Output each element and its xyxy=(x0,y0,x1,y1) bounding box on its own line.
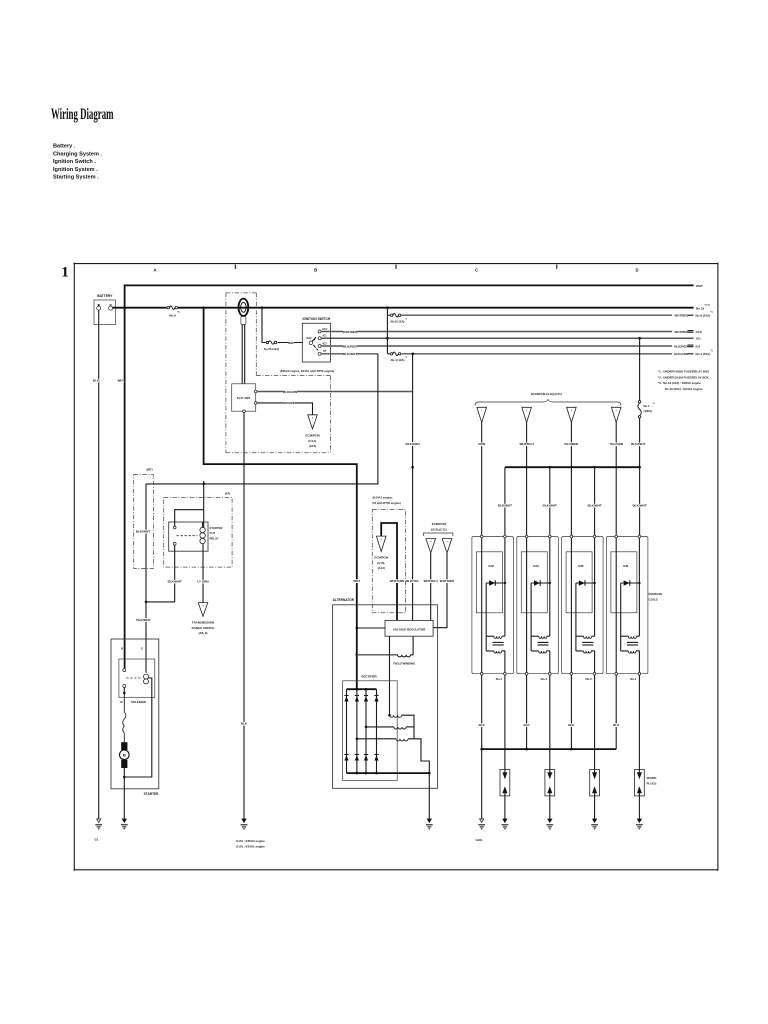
wire battery WHT to starter B xyxy=(118,308,125,669)
wire alternator ground xyxy=(428,773,430,819)
wire BLK/RED IG2 line xyxy=(321,344,701,348)
coil No.1 top contacts xyxy=(615,535,641,538)
ground G1 xyxy=(94,819,102,842)
svg-text:WHT: WHT xyxy=(696,284,703,288)
ICM box No.4 xyxy=(476,552,502,613)
wire BLK/WHT label top right xyxy=(631,442,645,446)
wire spark plug No.2 ground xyxy=(594,796,596,819)
MT dash-dot box xyxy=(134,467,154,568)
junction IG1/No.19 drop xyxy=(638,337,641,340)
coil ground bus xyxy=(480,748,616,751)
wire WHT/BLU to regulator xyxy=(424,553,439,620)
solenoid box xyxy=(119,659,155,704)
wire BLK coil No.4 ground xyxy=(479,675,486,749)
wire battery negative BLK to ground xyxy=(93,310,100,819)
battery terminal + xyxy=(97,304,101,310)
junction B+ regulator tap xyxy=(356,627,386,630)
relay contact bottom xyxy=(173,542,176,545)
ignition switch BAT contact xyxy=(309,338,315,345)
connector triangle WHT/BLU xyxy=(426,539,436,554)
BLK/WHT coil bus xyxy=(505,466,641,469)
connector triangle ECM/PCM (WHT/GRN) xyxy=(374,536,388,570)
wire GRN/RED from ELD to ECM xyxy=(257,401,313,415)
wire WHT/GRN regulator to ECM xyxy=(381,523,405,620)
svg-text:Ignition Switch .: Ignition Switch . xyxy=(53,159,96,165)
wire alternator B+ run xyxy=(204,308,361,690)
relay coil xyxy=(200,522,205,544)
wire fuse No.26 branch xyxy=(262,308,302,345)
wire BLK/WHT drop coil No.3 xyxy=(543,467,557,536)
svg-text:ECM/PCM: ECM/PCM xyxy=(432,522,447,526)
wire YEL/GRN to coil No.1 xyxy=(609,423,624,537)
wire motor return loop xyxy=(123,678,152,778)
wire BLK coil No.2 ground xyxy=(568,675,575,749)
svg-text:IG1: IG1 xyxy=(323,335,328,338)
svg-text:No.1: No.1 xyxy=(644,404,651,408)
svg-text:BLK/GRN: BLK/GRN xyxy=(406,442,421,446)
wire coil No.1 to spark plug xyxy=(638,675,640,770)
wire WHT/BLU to coil No.3 xyxy=(519,423,534,537)
svg-text:No.9: No.9 xyxy=(169,314,176,318)
svg-text:BLK: BLK xyxy=(93,379,100,383)
svg-text:BATTERY: BATTERY xyxy=(97,294,113,298)
svg-text:COILS: COILS xyxy=(649,597,658,601)
rectifier junctions xyxy=(356,688,378,774)
svg-text:STARTER: STARTER xyxy=(144,792,160,796)
svg-text:(A14): (A14) xyxy=(309,444,317,448)
wire BLK/WHT ST line xyxy=(321,352,378,356)
ICM diode No.2 xyxy=(576,580,596,586)
ECM/PCM row bracket xyxy=(475,392,621,406)
ignition coil unit No.2 xyxy=(562,537,604,674)
ground spark plug No.4 xyxy=(503,819,507,822)
svg-text:BLK/WHT: BLK/WHT xyxy=(498,504,512,508)
wire BLK/WHT drop coil No.1 xyxy=(632,467,646,536)
wire spark plug No.1 ground xyxy=(638,796,640,819)
junction right fuse branch xyxy=(386,306,389,309)
svg-text:1: 1 xyxy=(61,265,69,281)
connector triangle coil 1 signal xyxy=(611,407,621,422)
ignition switch IG1 contact xyxy=(318,335,327,340)
svg-text:B: B xyxy=(121,647,123,651)
svg-text:(A10),(C11): (A10),(C11) xyxy=(431,527,447,531)
svg-text:BLK/WHT: BLK/WHT xyxy=(168,580,182,584)
svg-text:No.26 (10A): No.26 (10A) xyxy=(264,347,279,351)
wire spark plug No.3 ground xyxy=(549,796,551,819)
wire regulator to stator xyxy=(389,636,391,715)
wire solenoid to motor xyxy=(123,688,126,743)
relay contact dashes xyxy=(177,535,198,537)
spark plug No.4 xyxy=(500,770,510,796)
starter motor M xyxy=(120,750,130,760)
svg-text:BLK/WHT: BLK/WHT xyxy=(343,352,357,356)
coil No.4 windings xyxy=(486,583,505,653)
wire coil No.3 to spark plug xyxy=(549,675,551,770)
svg-text:No.19 (20A) : K24A1 engine: No.19 (20A) : K24A1 engine xyxy=(665,387,703,391)
svg-text:*2 : UNDER-DASH FUSE/RELAY BO: *2 : UNDER-DASH FUSE/RELAY BOX xyxy=(658,375,709,379)
svg-text:*1 : UNDER-HOOD FUSE/RELAY BO: *1 : UNDER-HOOD FUSE/RELAY BOX xyxy=(658,370,709,374)
junction battery feed xyxy=(123,306,126,309)
ignition coil unit No.1 xyxy=(606,537,648,674)
starter M1 box xyxy=(111,639,159,796)
svg-text:RECTIFIER: RECTIFIER xyxy=(361,675,377,679)
ground spark plug No.1 xyxy=(637,819,641,822)
svg-text:BLK/RED: BLK/RED xyxy=(674,344,688,348)
wire WHT/RED to regulator xyxy=(433,553,455,628)
ICM diode No.3 xyxy=(531,580,551,586)
connector triangle coil 2 signal xyxy=(567,407,577,422)
wire No.4 (10A) row xyxy=(387,315,713,356)
ground starter xyxy=(122,819,126,822)
svg-text:Charging System .: Charging System . xyxy=(53,151,103,157)
wire WHT/RED ACC line xyxy=(321,330,703,334)
fuse No.9 main xyxy=(167,305,181,318)
svg-text:ICM: ICM xyxy=(623,564,629,568)
wire BLK coil No.1 ground xyxy=(613,675,620,749)
svg-text:No.4 (10A): No.4 (10A) xyxy=(391,358,405,362)
ignition switch rotor dashes xyxy=(314,337,319,350)
svg-text:BLK/GRN: BLK/GRN xyxy=(674,352,688,356)
svg-text:FIELD WINDING: FIELD WINDING xyxy=(393,662,416,666)
ICM box No.3 xyxy=(521,552,547,613)
ignition switch SW1 xyxy=(302,317,331,362)
solenoid plunger dashes xyxy=(126,677,141,679)
ICM box No.1 xyxy=(611,552,637,613)
relay feed elbow xyxy=(175,510,204,526)
svg-text:GRN: GRN xyxy=(478,442,486,446)
svg-text:VOLTAGE REGULATOR: VOLTAGE REGULATOR xyxy=(393,628,426,632)
rectifier diodes upper xyxy=(344,696,378,702)
ground G101 (ELD) xyxy=(236,819,265,848)
coil No.2 top contacts xyxy=(570,535,596,538)
ELD pin 1 xyxy=(254,390,257,393)
wire coil No.2 to spark plug xyxy=(594,675,596,770)
svg-text:S: S xyxy=(141,647,143,651)
ELD dash-dot enclosure xyxy=(226,293,331,453)
svg-text:SOLENOID: SOLENOID xyxy=(131,700,146,704)
svg-text:STARTER: STARTER xyxy=(210,526,223,530)
svg-text:PLUGS: PLUGS xyxy=(647,781,657,785)
ground spark plug No.2 xyxy=(593,819,597,822)
junction IG1/fuse column xyxy=(386,337,389,340)
table of contents list xyxy=(53,144,103,181)
svg-text:Wiring Diagram: Wiring Diagram xyxy=(51,106,114,123)
label spark plugs xyxy=(647,776,658,785)
svg-text:(C14),: (C14), xyxy=(308,439,317,443)
junction starter relay branch xyxy=(202,483,205,486)
wire BLK coil No.3 ground xyxy=(523,675,530,749)
junction rectifier output xyxy=(428,772,431,775)
coil No.1 bottom contacts xyxy=(615,672,641,681)
fuse No.26 (10A) xyxy=(264,340,279,352)
voltage regulator VR xyxy=(385,620,433,636)
label ignition coils xyxy=(649,592,662,601)
coil No.1 internal wires xyxy=(616,538,639,674)
svg-text:Starting System .: Starting System . xyxy=(53,175,99,181)
AT dash-dot box xyxy=(164,491,232,567)
svg-text:BLK/RED: BLK/RED xyxy=(343,344,358,348)
rectifier box xyxy=(343,675,398,781)
svg-text:(K24A1 engine,: (K24A1 engine, xyxy=(373,496,393,500)
wire solenoid S feed BLK/WHT xyxy=(136,602,150,673)
svg-text:IG2: IG2 xyxy=(696,344,701,348)
svg-text:WHT/RED: WHT/RED xyxy=(440,579,455,583)
svg-text:WHT: WHT xyxy=(118,379,125,383)
K24A1 dash-dot box xyxy=(372,510,405,613)
svg-text:No.19: No.19 xyxy=(696,307,705,311)
svg-text:*1 *2: *1 *2 xyxy=(705,304,711,307)
rectifier bottom bus xyxy=(347,772,430,774)
svg-text:BLK: BLK xyxy=(241,722,248,726)
coil No.4 bottom contacts xyxy=(480,672,506,681)
label No.19 at right edge xyxy=(696,304,710,311)
svg-text:BLK: BLK xyxy=(479,723,486,727)
svg-text:ECM/PCM: ECM/PCM xyxy=(305,434,320,438)
ignition switch ST contact xyxy=(318,350,327,355)
svg-text:BLK: BLK xyxy=(613,723,620,727)
ELD pin 2 xyxy=(254,402,257,405)
junction starter solenoid wire xyxy=(145,601,148,604)
svg-text:GRN/RED: GRN/RED xyxy=(283,401,298,405)
ignition switch IG2 contact xyxy=(318,342,327,347)
ECM/PCM pair bracket xyxy=(424,522,453,536)
coil No.1 windings xyxy=(621,583,640,653)
wire coil No.4 to spark plug xyxy=(504,675,506,770)
svg-text:ACC: ACC xyxy=(322,328,328,331)
junction BLK/GRN drop xyxy=(412,353,415,356)
solenoid contact bottom xyxy=(123,685,126,688)
ignition switch ACC contact xyxy=(318,328,327,333)
svg-text:No.3: No.3 xyxy=(541,677,548,681)
wire GRN to coil No.4 xyxy=(478,423,486,537)
svg-text:Battery .: Battery . xyxy=(53,144,76,150)
solenoid contact top xyxy=(123,669,126,672)
svg-text:ELD UNIT: ELD UNIT xyxy=(237,396,251,400)
wire spark plug No.4 ground xyxy=(504,796,506,819)
alternator box xyxy=(333,598,438,789)
battery terminal - xyxy=(109,305,113,310)
svg-text:No.4: No.4 xyxy=(496,677,503,681)
rectifier diodes lower xyxy=(344,755,378,761)
svg-text:IG1: IG1 xyxy=(696,337,701,341)
svg-text:WHT/BLU: WHT/BLU xyxy=(519,442,534,446)
connector triangle ECM/PCM (ELD) xyxy=(305,415,320,448)
svg-text:D: D xyxy=(635,268,638,273)
svg-text:No.9 (15A): No.9 (15A) xyxy=(391,319,405,323)
wire BLK/WHT MT branch xyxy=(136,484,150,602)
ELD unit U-ELD xyxy=(232,384,256,411)
svg-text:IGNITION SWITCH: IGNITION SWITCH xyxy=(302,317,330,321)
coil No.3 bottom contacts xyxy=(525,672,551,681)
wire BLK/GRN from ELD xyxy=(257,390,413,394)
connector triangle coil 3 signal xyxy=(522,407,532,422)
svg-text:WHT/RED: WHT/RED xyxy=(674,314,689,318)
svg-text:BLK/YEL: BLK/YEL xyxy=(406,579,419,583)
svg-text:ICM: ICM xyxy=(488,564,494,568)
svg-text:G1: G1 xyxy=(94,838,98,842)
ELD pin gnd xyxy=(243,410,246,413)
svg-text:WHT/GRN: WHT/GRN xyxy=(390,579,406,583)
coil No.2 windings xyxy=(576,583,595,653)
coil No.4 internal wires xyxy=(482,538,505,674)
svg-text:C: C xyxy=(475,268,478,273)
wire BLU/RED to coil No.2 xyxy=(565,423,580,537)
wire BLK/WHT starter feed xyxy=(146,354,378,484)
svg-text:TRANSMISSION: TRANSMISSION xyxy=(192,621,214,625)
svg-text:CUT: CUT xyxy=(210,531,216,535)
svg-text:G101: G101 xyxy=(475,838,482,842)
svg-text:BLK/WHT: BLK/WHT xyxy=(543,504,557,508)
svg-text:IG2: IG2 xyxy=(323,342,328,345)
svg-text:BLK/WHT: BLK/WHT xyxy=(136,530,150,534)
coil No.2 internal wires xyxy=(571,538,594,674)
connector triangle coil 4 signal xyxy=(477,407,487,422)
coil No.4 top contacts xyxy=(480,535,506,538)
svg-text:BLK/WHT: BLK/WHT xyxy=(631,442,645,446)
svg-text:*3 : No.19 (15A) : K20A3 engi: *3 : No.19 (15A) : K20A3 engine xyxy=(658,381,701,385)
ICM diode No.1 xyxy=(621,580,641,586)
rectifier top bus xyxy=(347,688,377,690)
wire No.19 drop to coils xyxy=(639,338,641,467)
ground G101 (coils) xyxy=(475,819,485,842)
battery xyxy=(94,294,116,324)
svg-text:ECM/PCM: ECM/PCM xyxy=(374,556,388,560)
wire starter ground xyxy=(123,777,125,819)
rectifier phase wires xyxy=(347,689,377,773)
svg-text:No.2: No.2 xyxy=(585,677,592,681)
ICM box No.2 xyxy=(566,552,592,613)
connector triangle transmission range switch xyxy=(192,603,215,636)
ignition coil unit No.4 xyxy=(472,537,514,674)
svg-text:A: A xyxy=(153,268,156,273)
svg-text:BAT: BAT xyxy=(307,336,313,340)
svg-text:(AT): (AT) xyxy=(225,491,231,495)
wire main battery feed xyxy=(113,307,694,309)
svg-text:WHT/RED: WHT/RED xyxy=(343,330,358,334)
wire bus to ground G101 xyxy=(481,749,483,819)
svg-text:BLK: BLK xyxy=(524,723,531,727)
svg-text:K2 with DT52 engine): K2 with DT52 engine) xyxy=(373,501,401,505)
svg-text:SPARK: SPARK xyxy=(647,776,658,780)
motor brush top xyxy=(121,742,127,750)
fuse No.4 (10A) xyxy=(390,351,408,362)
svg-text:(K20A3 engine, K24A1 with DT52: (K20A3 engine, K24A1 with DT52 engine) xyxy=(280,369,334,373)
svg-text:ECM/PCM (A10),(C11): ECM/PCM (A10),(C11) xyxy=(531,392,562,396)
spark plug No.1 xyxy=(635,770,645,796)
wire relay coil output LT GRN xyxy=(197,544,209,603)
motor brush bottom xyxy=(121,760,127,768)
notes fuse/relay box xyxy=(658,370,709,391)
wire ELD ground BLK xyxy=(241,413,248,820)
coil No.2 bottom contacts xyxy=(570,672,596,681)
wire IG1 line xyxy=(321,337,701,341)
svg-text:No.9 (15A): No.9 (15A) xyxy=(696,314,711,318)
spark plug No.3 xyxy=(545,770,555,796)
svg-text:ICM: ICM xyxy=(533,564,539,568)
junction alternator feed xyxy=(202,306,205,309)
ELD current sensor ring xyxy=(239,299,249,325)
svg-text:Ignition System .: Ignition System . xyxy=(53,167,98,173)
svg-text:No.1: No.1 xyxy=(630,677,637,681)
svg-text:ICM: ICM xyxy=(578,564,584,568)
spark plug No.2 xyxy=(590,770,600,796)
starter cut relay RLY1 xyxy=(169,522,223,551)
field winding xyxy=(356,636,417,665)
junction ELD branch xyxy=(261,306,264,309)
relay contact top xyxy=(173,526,176,529)
svg-text:No.4 (10A): No.4 (10A) xyxy=(696,352,711,356)
stator windings xyxy=(356,714,430,773)
svg-text:(A8, 9): (A8, 9) xyxy=(199,631,208,635)
svg-text:RELAY: RELAY xyxy=(210,536,219,540)
svg-text:(100A): (100A) xyxy=(644,409,653,413)
svg-text:IGNITION: IGNITION xyxy=(649,592,662,596)
svg-text:BLK/WHT: BLK/WHT xyxy=(632,504,646,508)
wire BLK/GRN to alternator xyxy=(406,354,421,621)
svg-text:ACC: ACC xyxy=(696,330,703,334)
wire ELD sensor pair down xyxy=(242,325,245,384)
svg-text:WHT: WHT xyxy=(288,341,295,345)
solenoid coil xyxy=(144,674,149,684)
svg-text:BLK/WHT: BLK/WHT xyxy=(136,618,150,622)
svg-text:ALTERNATOR: ALTERNATOR xyxy=(333,598,355,602)
wire BLK/WHT drop coil No.4 xyxy=(498,467,512,536)
svg-text:(A14): (A14) xyxy=(378,566,385,570)
coil No.3 top contacts xyxy=(525,535,551,538)
svg-text:RANGE SWITCH: RANGE SWITCH xyxy=(192,626,215,630)
wire relay output BLK/WHT xyxy=(146,545,182,602)
coil No.3 internal wires xyxy=(527,538,550,674)
note K24A1 engine xyxy=(373,496,401,505)
svg-text:B: B xyxy=(314,268,317,273)
ground alternator xyxy=(427,819,431,822)
svg-text:(MT): (MT) xyxy=(146,467,152,471)
wire BLK/WHT drop coil No.2 xyxy=(587,467,601,536)
fuse No.1 (100A) vertical xyxy=(638,401,655,418)
fuse No.9 (15A) xyxy=(390,312,408,323)
coil No.3 windings xyxy=(531,583,550,653)
svg-text:WHT: WHT xyxy=(353,579,360,583)
svg-text:ST: ST xyxy=(323,350,327,353)
ground spark plug No.3 xyxy=(548,819,552,822)
svg-text:BLK: BLK xyxy=(568,723,575,727)
svg-text:BLK/GRN: BLK/GRN xyxy=(283,390,298,394)
svg-text:BLU/RED: BLU/RED xyxy=(565,442,580,446)
svg-text:YEL/GRN: YEL/GRN xyxy=(609,442,624,446)
wire WHT branch to right edge xyxy=(125,284,703,308)
svg-text:G101 : K24A1 engine: G101 : K24A1 engine xyxy=(236,844,265,848)
svg-text:G101 : K20A3 engine: G101 : K20A3 engine xyxy=(236,839,265,843)
svg-text:WHT/RED: WHT/RED xyxy=(674,330,689,334)
ignition coil unit No.3 xyxy=(517,537,559,674)
ICM diode No.4 xyxy=(486,580,506,586)
svg-text:BLK/WHT: BLK/WHT xyxy=(587,504,601,508)
svg-text:M: M xyxy=(123,754,126,758)
diagram frame xyxy=(74,263,719,871)
wire relay feed drop xyxy=(203,484,205,528)
svg-text:(C14),: (C14), xyxy=(377,561,385,565)
svg-text:WHT/BLU: WHT/BLU xyxy=(424,579,439,583)
column ticks and labels A B C D xyxy=(153,265,638,273)
wire No.9 (15A) row xyxy=(387,308,713,318)
connector triangle WHT/RED xyxy=(442,539,452,554)
splice BLK/GRN-BLK/YEL xyxy=(411,466,414,469)
svg-text:LT GRN: LT GRN xyxy=(197,580,209,584)
